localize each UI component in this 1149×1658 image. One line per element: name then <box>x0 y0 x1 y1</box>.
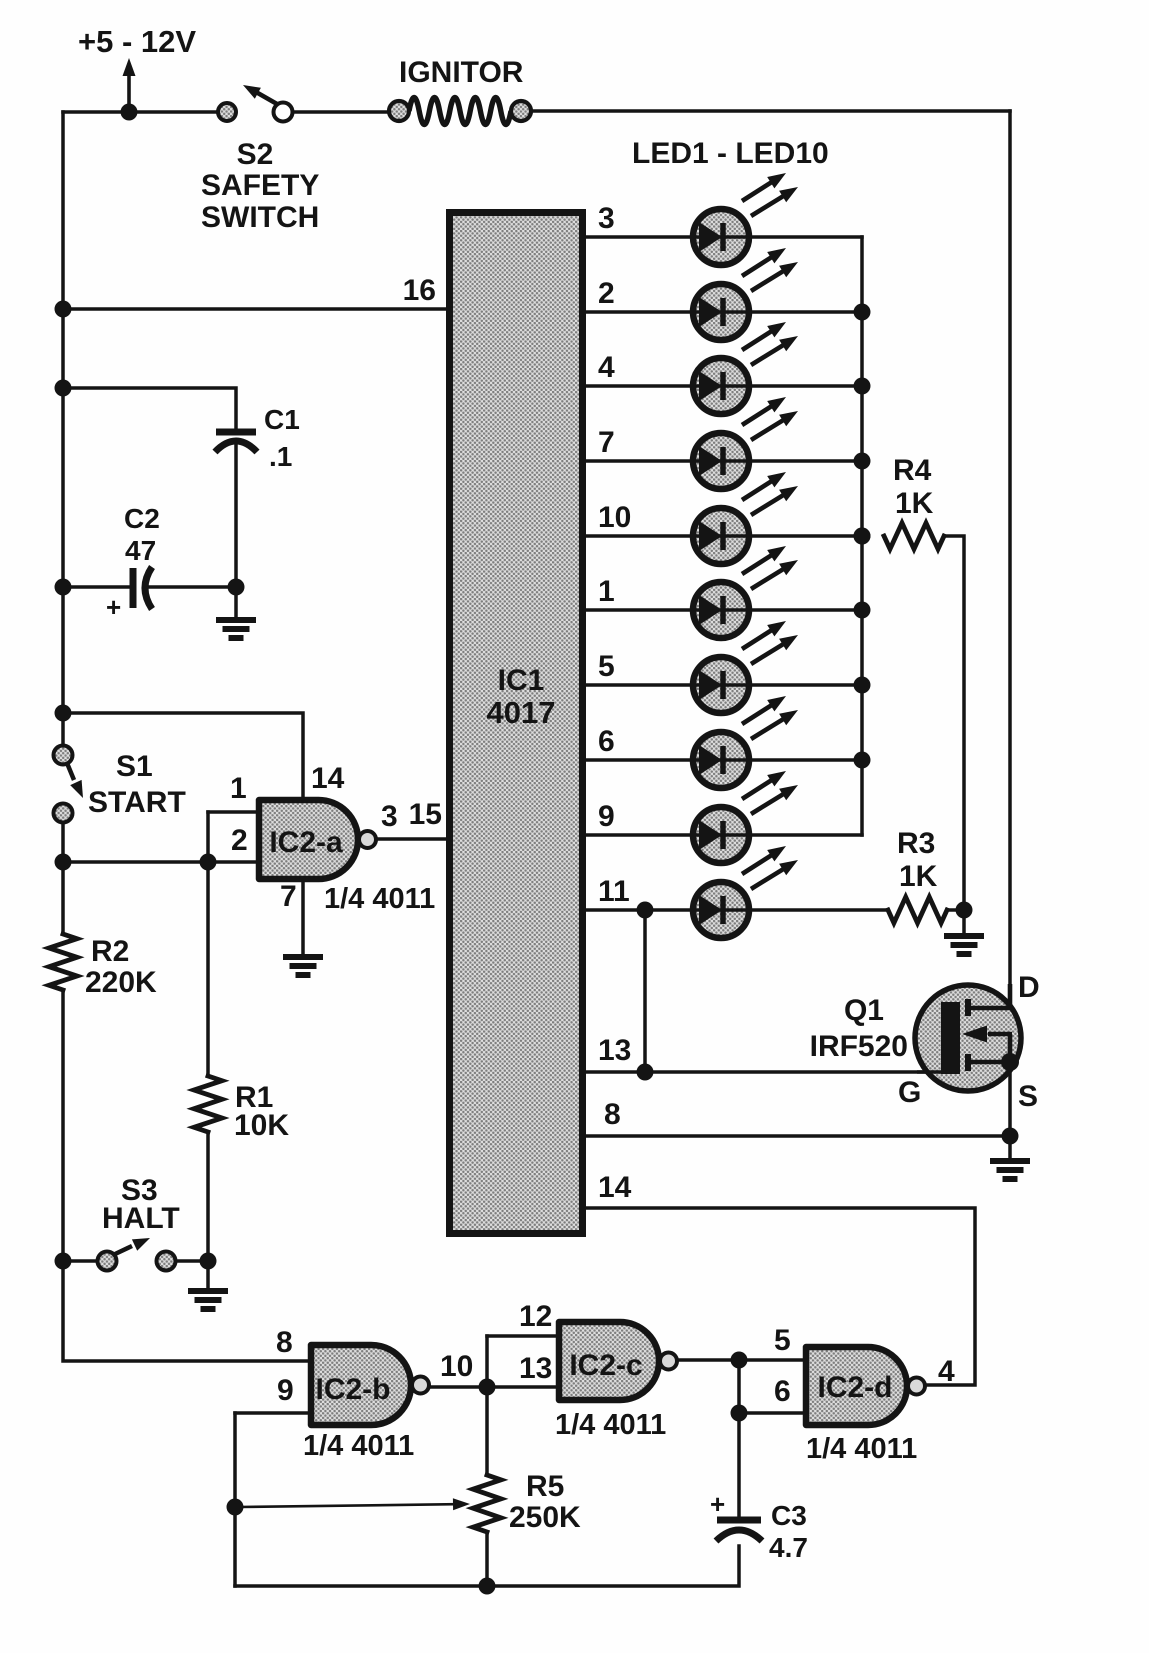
junction S1 bottom node <box>55 854 72 871</box>
label S3 <box>121 1174 158 1207</box>
label HALT <box>102 1202 180 1235</box>
label SWITCH <box>201 201 319 234</box>
label LED1 - LED10 <box>632 137 829 170</box>
terminal ignitor left <box>389 101 409 121</box>
wire IC2-c output <box>677 1358 809 1362</box>
label Q1 S <box>1018 1080 1038 1113</box>
wire R3 right <box>947 908 964 912</box>
svg-text:1K: 1K <box>895 487 934 520</box>
label IGNITOR <box>399 56 524 89</box>
svg-text:Q1: Q1 <box>844 994 884 1027</box>
LED8 (IC1 pin 6) <box>693 696 798 788</box>
svg-text:16: 16 <box>403 274 436 307</box>
wire pin1 bracket vertical <box>206 812 210 862</box>
label 4017 <box>487 695 556 730</box>
label IC1 pin 4 <box>598 351 615 384</box>
label SAFETY <box>201 169 319 202</box>
junction S3 node <box>55 1253 72 1270</box>
label IC1 pin 3 <box>598 202 615 235</box>
svg-text:4.7: 4.7 <box>769 1532 808 1563</box>
switch S2 throw <box>274 103 293 122</box>
svg-text:1: 1 <box>230 772 247 805</box>
svg-text:S2: S2 <box>237 138 274 171</box>
svg-text:SAFETY: SAFETY <box>201 169 319 202</box>
label pin 8 gate <box>276 1326 293 1359</box>
wire pin12 <box>487 1334 559 1338</box>
node V+ supply arrow <box>123 58 136 108</box>
svg-text:47: 47 <box>125 535 156 566</box>
svg-text:5: 5 <box>598 650 615 683</box>
label pin 2 <box>231 824 248 857</box>
label pin 6 <box>774 1375 791 1408</box>
wire LED7 row <box>586 683 862 687</box>
wire S3 right <box>176 1259 208 1263</box>
switch S3 lever <box>113 1238 150 1255</box>
label R1 value 10K <box>234 1109 289 1142</box>
wire pin6 <box>739 1411 809 1415</box>
svg-text:220K: 220K <box>85 966 157 999</box>
svg-text:2: 2 <box>598 277 615 310</box>
svg-text:9: 9 <box>598 800 615 833</box>
label S2 <box>237 138 274 171</box>
svg-text:S1: S1 <box>116 750 153 783</box>
wire LED bus vertical <box>860 237 864 835</box>
label 1/4 4011 for IC2-b <box>303 1430 414 1462</box>
svg-text:C1: C1 <box>264 404 300 435</box>
svg-text:1/4 4011: 1/4 4011 <box>806 1433 917 1465</box>
wire LED6 row <box>586 608 862 612</box>
LED4 (IC1 pin 7) <box>693 397 798 489</box>
svg-text:6: 6 <box>598 725 615 758</box>
wire LED3 row <box>586 384 862 388</box>
switch S1 throw <box>54 804 73 823</box>
LED1 (IC1 pin 3) <box>693 173 798 265</box>
svg-text:11: 11 <box>598 875 630 908</box>
label IC1 pin 10 <box>598 501 631 534</box>
ground Q1 source <box>990 1161 1030 1179</box>
svg-text:D: D <box>1018 971 1040 1004</box>
wire pin11 to pin13 <box>643 910 647 1072</box>
svg-text:IC1: IC1 <box>498 664 545 697</box>
wire R1 lower <box>206 1132 210 1261</box>
label pin 9 gate <box>277 1374 294 1407</box>
svg-text:R4: R4 <box>893 454 932 487</box>
wiper arrow R5 <box>238 1498 470 1510</box>
label pin 10 <box>440 1350 473 1383</box>
svg-text:+5 - 12V: +5 - 12V <box>78 24 196 59</box>
ground S3 <box>188 1291 228 1309</box>
wire pin9 down <box>233 1413 237 1586</box>
junction wiper node <box>227 1499 244 1516</box>
svg-text:250K: 250K <box>509 1501 581 1534</box>
svg-text:1/4 4011: 1/4 4011 <box>324 883 435 915</box>
wire IC2-b output <box>430 1385 487 1389</box>
svg-text:.1: .1 <box>269 441 292 472</box>
label pin 7 <box>280 880 297 913</box>
svg-text:10: 10 <box>598 501 631 534</box>
svg-text:4: 4 <box>938 1355 955 1388</box>
svg-text:8: 8 <box>604 1098 621 1131</box>
capacitor C3 <box>716 1520 762 1541</box>
LED6 (IC1 pin 1) <box>693 546 798 638</box>
label C3 value 4.7 <box>769 1532 808 1563</box>
label IC1 pin 14 <box>598 1171 632 1204</box>
svg-text:5: 5 <box>774 1324 791 1357</box>
label R3 value 1K <box>899 860 938 893</box>
wire pin1 horizontal <box>208 810 259 814</box>
wire bottom rail <box>235 1546 739 1586</box>
label 1/4 4011 for IC2-c <box>555 1409 666 1441</box>
junction R1 top node <box>200 854 217 871</box>
label pin 5 <box>774 1324 791 1357</box>
junction osc node <box>479 1379 496 1396</box>
resistor R2 <box>49 934 77 990</box>
capacitor C1 <box>215 432 257 452</box>
label C2 plus <box>106 592 121 622</box>
junction source ground node <box>1002 1128 1019 1145</box>
wire S1 node to pin2 <box>63 860 259 864</box>
svg-text:1: 1 <box>598 575 615 608</box>
junction supply <box>121 104 138 121</box>
svg-text:IC2-c: IC2-c <box>569 1349 642 1382</box>
ground R3 <box>944 936 984 954</box>
junction bottom rail R5 <box>479 1578 496 1595</box>
resistor IGNITOR element <box>409 98 511 125</box>
svg-text:6: 6 <box>774 1375 791 1408</box>
ground C branch <box>216 620 256 638</box>
LED7 (IC1 pin 5) <box>693 621 798 713</box>
wire R1 upper <box>206 862 210 1076</box>
junction S3 R1 ground node <box>200 1253 217 1270</box>
wire IC2-a pin14 branch <box>63 713 303 799</box>
ic IC1 4017 body <box>450 213 583 1234</box>
wire C1 bottom <box>234 446 238 587</box>
svg-text:HALT: HALT <box>102 1202 180 1235</box>
junction LED bus y610 <box>854 602 871 619</box>
svg-text:G: G <box>898 1076 921 1109</box>
switch S1 lever <box>67 763 83 798</box>
label IC1 pin 1 <box>598 575 615 608</box>
transistor Q1 IRF520 <box>915 984 1021 1091</box>
resistor R3 <box>888 897 947 923</box>
svg-text:10K: 10K <box>234 1109 289 1142</box>
label pin 1 <box>230 772 247 805</box>
svg-text:R3: R3 <box>897 827 935 860</box>
svg-text:IRF520: IRF520 <box>810 1030 908 1063</box>
svg-text:IGNITOR: IGNITOR <box>399 56 524 89</box>
svg-text:SWITCH: SWITCH <box>201 201 319 234</box>
label +5 - 12V <box>78 24 196 59</box>
label R1 <box>235 1081 273 1114</box>
wire Q1 source <box>1008 1062 1012 1136</box>
svg-text:4: 4 <box>598 351 615 384</box>
LED2 (IC1 pin 2) <box>693 248 798 340</box>
wire IC1 pin16 <box>63 307 452 311</box>
svg-text:4017: 4017 <box>487 695 556 730</box>
svg-text:IC2-b: IC2-b <box>316 1373 391 1406</box>
wire LED4 row <box>586 459 862 463</box>
junction pin11 node <box>637 902 654 919</box>
svg-text:+: + <box>106 592 121 622</box>
junction LED bus y685 <box>854 677 871 694</box>
svg-text:1/4 4011: 1/4 4011 <box>555 1409 666 1441</box>
switch S1 pole <box>54 746 73 765</box>
capacitor C2 <box>133 567 152 609</box>
LED3 (IC1 pin 4) <box>693 322 798 414</box>
label R2 value 220K <box>85 966 157 999</box>
junction LED bus y536 <box>854 528 871 545</box>
svg-text:15: 15 <box>409 798 442 831</box>
junction pin13 node <box>637 1064 654 1081</box>
svg-text:10: 10 <box>440 1350 473 1383</box>
wire pin5-6 bracket <box>737 1360 741 1413</box>
svg-text:R2: R2 <box>91 935 129 968</box>
wire osc to R5 <box>485 1387 489 1475</box>
junction pin14 branch <box>55 705 72 722</box>
label R4 <box>893 454 932 487</box>
svg-text:3: 3 <box>598 202 615 235</box>
wire left rail upper <box>61 112 65 745</box>
wire pin13 gate <box>487 1385 559 1389</box>
junction R3 R4 ground node <box>956 902 973 919</box>
switch S2 pole <box>218 103 236 121</box>
wire IC2-a output <box>377 837 452 841</box>
label pin 15 <box>409 798 442 831</box>
wire C3 top stem <box>737 1413 741 1516</box>
svg-text:1K: 1K <box>899 860 938 893</box>
junction C2 branch <box>55 579 72 596</box>
svg-text:14: 14 <box>598 1171 632 1204</box>
junction pin6 node <box>731 1405 748 1422</box>
wire R4 to down <box>944 536 964 910</box>
label R5 value 250K <box>509 1501 581 1534</box>
junction pin5 node <box>731 1352 748 1369</box>
label IC1 pin 6 <box>598 725 615 758</box>
label IC1 pin 7 <box>598 426 615 459</box>
terminal ignitor right <box>511 101 531 121</box>
junction pin16 branch <box>55 301 72 318</box>
nand gate IC2-a <box>259 800 376 879</box>
label S1 <box>116 750 153 783</box>
svg-text:12: 12 <box>519 1300 552 1333</box>
switch S2 lever <box>243 85 277 104</box>
resistor R1 <box>194 1076 222 1132</box>
wire ground stem C branch <box>234 587 238 617</box>
wire IC1 pin8 <box>586 1134 1010 1138</box>
wire top rail left segment <box>63 110 218 114</box>
wire left rail S3 down to pin8 row <box>63 1261 311 1361</box>
label IC1 pin 11 <box>598 875 630 908</box>
label C3 <box>771 1500 807 1531</box>
label Q1 <box>844 994 884 1027</box>
wire left rail R2 to S3 <box>61 990 65 1261</box>
wire LED2 row <box>586 310 862 314</box>
wire C2 right <box>150 585 236 589</box>
svg-text:START: START <box>88 786 186 819</box>
svg-text:14: 14 <box>311 762 345 795</box>
svg-text:LED1 - LED10: LED1 - LED10 <box>632 137 829 170</box>
wire S2 to ignitor <box>292 110 390 114</box>
label IRF520 <box>810 1030 908 1063</box>
junction LED bus y461 <box>854 453 871 470</box>
svg-text:S: S <box>1018 1080 1038 1113</box>
wire LED1 row <box>586 235 862 239</box>
label R5 <box>526 1470 564 1503</box>
wire IC1 pin13 to gate <box>586 1070 941 1074</box>
nand gate IC2-c <box>559 1322 677 1400</box>
junction C1 C2 ground node <box>228 579 245 596</box>
wire source ground stem <box>1008 1136 1012 1158</box>
wire ignitor to drain corner <box>530 109 1010 113</box>
junction LED bus y386 <box>854 378 871 395</box>
wire LED10 row <box>586 908 888 912</box>
svg-text:R5: R5 <box>526 1470 564 1503</box>
wire C1 top branch <box>63 388 236 428</box>
label C1 value .1 <box>269 441 292 472</box>
resistor R4 <box>884 523 944 549</box>
svg-text:9: 9 <box>277 1374 294 1407</box>
wire IC2-b pin9 <box>235 1411 311 1415</box>
label pin 14 IC2-a <box>311 762 345 795</box>
svg-text:1/4 4011: 1/4 4011 <box>303 1430 414 1462</box>
junction LED bus y760 <box>854 752 871 769</box>
wire osc bracket vertical <box>485 1336 489 1387</box>
label pin 4 <box>938 1355 955 1388</box>
label Q1 D <box>1018 971 1040 1004</box>
label 1/4 4011 for IC2-a <box>324 883 435 915</box>
wire S3 left <box>63 1259 97 1263</box>
label IC1 pin 5 <box>598 650 615 683</box>
wire LED9 row <box>586 833 862 837</box>
label pin 12 <box>519 1300 552 1333</box>
wire IC2-a pin7 ground stem <box>301 879 305 954</box>
label pin 16 <box>403 274 436 307</box>
junction C1 branch <box>55 380 72 397</box>
svg-text:+: + <box>710 1489 725 1519</box>
LED10 (IC1 pin 11) <box>693 846 798 938</box>
wire Q1 drain vertical <box>1008 111 1012 1005</box>
label C2 value 47 <box>125 535 156 566</box>
svg-text:13: 13 <box>519 1352 552 1385</box>
svg-text:8: 8 <box>276 1326 293 1359</box>
svg-text:2: 2 <box>231 824 248 857</box>
svg-text:13: 13 <box>598 1034 631 1067</box>
wire LED8 row <box>586 758 862 762</box>
svg-text:IC2-d: IC2-d <box>818 1371 893 1404</box>
wire S3 ground stem <box>206 1261 210 1288</box>
LED5 (IC1 pin 10) <box>693 472 798 564</box>
svg-text:7: 7 <box>280 880 297 913</box>
label IC1 pin 8 <box>604 1098 621 1131</box>
wire C2 left <box>63 585 129 589</box>
wire LED5 row <box>586 534 862 538</box>
nand gate IC2-d <box>806 1347 925 1425</box>
wire R3 ground stem <box>962 910 966 933</box>
wire IC1 pin14 feedback <box>586 1208 975 1385</box>
switch S3 throw <box>157 1252 176 1271</box>
label R2 <box>91 935 129 968</box>
label IC1 pin 2 <box>598 277 615 310</box>
resistor R5 <box>473 1475 501 1532</box>
label pin 3 <box>381 800 398 833</box>
label C2 <box>124 503 160 534</box>
label C3 plus <box>710 1489 725 1519</box>
label R3 <box>897 827 935 860</box>
ground IC2-a pin7 <box>283 957 323 975</box>
svg-text:IC2-a: IC2-a <box>269 826 343 859</box>
svg-text:7: 7 <box>598 426 615 459</box>
wire R5 down <box>485 1532 489 1586</box>
junction LED bus y312 <box>854 304 871 321</box>
junction R4 tap <box>854 528 871 545</box>
label IC1 <box>498 664 545 697</box>
label 1/4 4011 for IC2-d <box>806 1433 917 1465</box>
wire left rail S1 to R2 <box>61 823 65 934</box>
svg-text:C3: C3 <box>771 1500 807 1531</box>
label IC1 pin 9 <box>598 800 615 833</box>
switch S3 pole <box>98 1252 117 1271</box>
label START <box>88 786 186 819</box>
nand gate IC2-b <box>311 1345 429 1425</box>
LED9 (IC1 pin 9) <box>693 771 798 863</box>
label IC1 pin 13 <box>598 1034 631 1067</box>
svg-text:3: 3 <box>381 800 398 833</box>
label Q1 G <box>898 1076 921 1109</box>
label R4 value 1K <box>895 487 934 520</box>
svg-text:C2: C2 <box>124 503 160 534</box>
label pin 13 gate <box>519 1352 552 1385</box>
label C1 <box>264 404 300 435</box>
